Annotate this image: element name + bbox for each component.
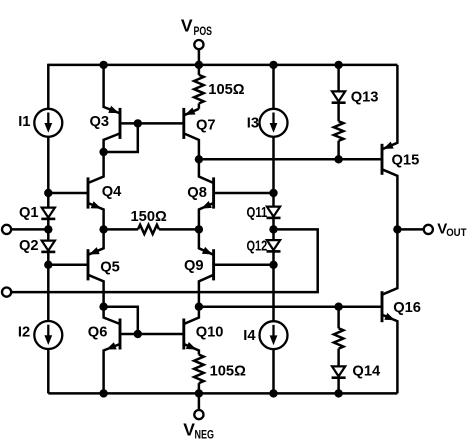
bias resistor upper (zigzag) <box>334 121 344 141</box>
wire Q9-base node down to I4 <box>272 265 275 321</box>
node Q3 emitter on top rail <box>99 61 107 69</box>
wire bias resistor to Q15 base line <box>337 141 340 160</box>
node I4 on bottom rail <box>269 389 277 397</box>
svg-text:I3: I3 <box>247 115 259 131</box>
transistor Q10 <box>184 307 199 355</box>
svg-text:Q16: Q16 <box>393 300 421 316</box>
node Q4/Q5 emitters <box>99 225 107 233</box>
current source I4 <box>260 321 288 349</box>
svg-text:OUT: OUT <box>446 227 467 239</box>
wire Q14 to bottom rail <box>337 378 340 394</box>
node Q6 base tie <box>134 330 142 338</box>
input terminal 2 <box>2 288 11 297</box>
wire Q4-base node to Q1 anode <box>47 193 50 208</box>
wire Q13 to bias resistor <box>337 103 340 122</box>
svg-text:Q4: Q4 <box>102 184 122 200</box>
wire I4 to bottom rail <box>272 349 275 393</box>
svg-text:I4: I4 <box>243 328 256 344</box>
wire Q11 to midpoint node <box>272 218 275 229</box>
node V_POS on top rail <box>195 61 203 69</box>
wire midpoint to Q12 <box>272 229 275 240</box>
resistor 105ohm top (zigzag) <box>194 75 204 104</box>
wire Q7/Q8 collectors to Q15 base <box>199 158 381 161</box>
svg-text:Q1: Q1 <box>19 205 39 221</box>
wire input1 to Q1/Q2 node <box>11 228 48 231</box>
node Q13 branch / Q15 base line <box>334 155 342 163</box>
wire bias resistor to Q14 <box>337 349 340 367</box>
wire V_POS terminal to top rail <box>198 49 201 65</box>
svg-text:105Ω: 105Ω <box>208 82 245 98</box>
svg-text:Q2: Q2 <box>19 238 39 254</box>
svg-text:V: V <box>181 15 193 35</box>
diode-connected Q13 <box>332 91 345 101</box>
transistor Q5 <box>48 229 103 306</box>
wire Q8-base node to Q11 <box>272 193 275 207</box>
wire input node to Q2 anode <box>47 229 50 240</box>
svg-text:Q5: Q5 <box>100 259 120 275</box>
resistor 105ohm top (wire) <box>198 65 201 75</box>
V_POS terminal <box>194 40 203 49</box>
resistor 150ohm (left wire) <box>104 228 138 231</box>
current source I3 <box>260 109 288 137</box>
node Q11/Q12 midpoint <box>269 225 277 233</box>
wire Q12 to Q9-base node <box>272 252 275 265</box>
wire bottom rail to V_NEG terminal <box>198 393 201 410</box>
wire Q3/Q7 base line <box>121 122 182 125</box>
resistor 150ohm (right wire) <box>159 228 199 231</box>
svg-text:I1: I1 <box>18 114 30 130</box>
node Q6 emitter on bottom rail <box>99 389 107 397</box>
wire Q6 base-collector tie <box>104 307 138 334</box>
bias resistor lower (zigzag) <box>334 328 344 348</box>
diode-connected Q2 <box>42 241 55 251</box>
wire Q10/Q9 collectors to Q16 base <box>199 305 381 308</box>
transistor Q3 <box>104 65 120 152</box>
resistor 150ohm (zigzag) <box>138 225 159 234</box>
svg-text:Q7: Q7 <box>196 117 216 133</box>
diode-connected Q12 <box>267 240 280 250</box>
wire Q6/Q10 base line <box>121 333 182 336</box>
node Q7 collector <box>195 155 203 163</box>
transistor Q16 <box>382 229 397 393</box>
node V_NEG on bottom rail <box>195 389 203 397</box>
diode-connected Q1 <box>42 208 55 218</box>
wire Q2 cathode to Q5-base node <box>47 252 50 265</box>
wire top supply rail <box>48 64 397 67</box>
wire 105ohm to Q7 emitter <box>198 103 201 108</box>
svg-text:Q9: Q9 <box>184 258 204 274</box>
svg-text:I2: I2 <box>18 325 30 341</box>
svg-text:105Ω: 105Ω <box>210 363 247 379</box>
svg-text:150Ω: 150Ω <box>131 209 168 225</box>
svg-text:Q8: Q8 <box>187 185 207 201</box>
svg-text:Q15: Q15 <box>392 153 420 169</box>
V_NEG terminal <box>194 410 203 419</box>
wire I2 to bottom rail <box>47 349 50 393</box>
wire Q3 base-collector tie <box>104 123 138 152</box>
svg-text:Q12: Q12 <box>247 238 268 254</box>
current source I1 <box>34 109 62 137</box>
node Q5 base on left column <box>44 261 52 269</box>
node Q6 collector / Q5 collector <box>99 303 107 311</box>
node Q13 on top rail <box>334 61 342 69</box>
wire Q5-base node down to I2 <box>47 265 50 321</box>
svg-text:V: V <box>183 420 195 440</box>
wire top rail to I3 <box>272 65 275 109</box>
svg-text:Q14: Q14 <box>352 364 381 380</box>
wire Q1 cathode to input node <box>47 219 50 229</box>
resistor 105ohm bottom (wire) <box>198 383 201 393</box>
svg-text:Q11: Q11 <box>247 205 268 221</box>
svg-text:Q3: Q3 <box>90 114 110 130</box>
current source I2 <box>34 321 62 349</box>
node I3 on top rail <box>269 61 277 69</box>
V_OUT terminal <box>424 225 433 234</box>
svg-text:POS: POS <box>194 24 213 38</box>
node input1 / Q1-Q2 junction <box>44 225 52 233</box>
transistor Q6 <box>104 307 120 394</box>
wire top rail to Q13 <box>337 65 340 92</box>
wire bottom supply rail <box>48 392 397 395</box>
transistor Q7 <box>184 108 199 160</box>
node Q4 base on left column <box>44 189 52 197</box>
wire I3 to Q8-base node <box>272 137 275 193</box>
input terminal 1 <box>2 225 11 234</box>
wire left column upper (top rail to I1) <box>47 64 50 109</box>
transistor Q15 <box>382 65 397 230</box>
wire V_OUT node to terminal <box>397 228 423 231</box>
diode-connected Q11 <box>267 207 280 217</box>
wire input2 line <box>11 229 318 292</box>
node Q14 branch on Q16 base line <box>334 303 342 311</box>
node Q3 collector / Q4 collector <box>99 148 107 156</box>
transistor Q8 <box>199 159 274 229</box>
transistor Q9 <box>199 229 274 306</box>
node Q9 base <box>269 261 277 269</box>
svg-text:Q6: Q6 <box>88 325 108 341</box>
svg-text:NEG: NEG <box>195 428 215 441</box>
svg-text:Q10: Q10 <box>196 325 224 341</box>
resistor 105ohm bottom (zigzag) <box>194 355 204 384</box>
wire I1 to Q4-base node <box>47 137 50 193</box>
wire Q16 base line to bias resistor <box>337 307 340 329</box>
node Q3 base tie <box>134 119 142 127</box>
diode-connected Q14 <box>332 366 345 376</box>
transistor Q4 <box>48 152 103 229</box>
node Q8/Q9 emitters <box>195 225 203 233</box>
node Q10 collector <box>195 303 203 311</box>
node Q8 base <box>269 189 277 197</box>
node V_OUT <box>393 225 401 233</box>
node Q14 on bottom rail <box>334 389 342 397</box>
svg-text:Q13: Q13 <box>351 89 379 105</box>
